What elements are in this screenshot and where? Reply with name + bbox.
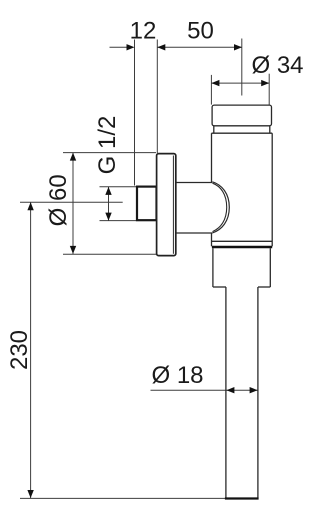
svg-text:Ø 34: Ø 34 xyxy=(251,52,303,79)
cap bottom groove ring right xyxy=(269,126,271,133)
ext line G1/2 top xyxy=(100,186,137,188)
body top line xyxy=(212,132,273,134)
centerline body x=241.8 xyxy=(241,39,243,96)
body left edge lower xyxy=(211,233,213,247)
arrow Ø34 left-pointing xyxy=(211,80,219,86)
ext line bottom xyxy=(20,497,226,499)
svg-text:G 1/2: G 1/2 xyxy=(94,116,121,175)
leader line Ø18 xyxy=(151,389,226,391)
body right edge xyxy=(271,133,273,246)
arrow 50 right-pointing xyxy=(234,44,242,50)
ext line wall left x=134.5 xyxy=(134,40,136,186)
lower box bottom right shoulder xyxy=(258,286,270,288)
arrow 50 left-pointing xyxy=(157,44,165,50)
dim line G1/2 xyxy=(108,187,110,221)
arrow 230 up-pointing xyxy=(27,202,33,210)
flange inner edge line xyxy=(172,156,174,254)
lower box left xyxy=(212,248,214,287)
svg-text:Ø 18: Ø 18 xyxy=(151,362,203,389)
arrow 230 down-pointing xyxy=(27,490,33,498)
dim line 230 xyxy=(30,202,32,498)
joint thick line xyxy=(212,246,272,248)
arrow Ø60 down-pointing xyxy=(70,246,76,254)
dim line Ø18 xyxy=(226,389,257,391)
body left edge upper xyxy=(211,133,213,182)
conical nose bulge fill xyxy=(212,182,229,233)
arrow G1/2 down-pointing xyxy=(105,213,111,221)
ext line Ø60 bottom xyxy=(63,253,176,255)
dim line Ø34 xyxy=(211,82,269,84)
G1/2 threaded nipple xyxy=(137,187,157,221)
connector top line xyxy=(176,182,213,184)
svg-text:Ø 60: Ø 60 xyxy=(45,174,72,226)
arrow Ø18 left-pointing xyxy=(226,387,234,393)
leader line inlet axis xyxy=(20,201,123,203)
lower box bottom left shoulder xyxy=(213,286,226,288)
wall flange rosette xyxy=(157,154,176,256)
valve cap xyxy=(212,105,271,126)
svg-text:50: 50 xyxy=(187,18,214,45)
svg-text:230: 230 xyxy=(6,330,33,370)
arrow Ø60 up-pointing xyxy=(70,153,76,161)
arrow Ø34 right-pointing xyxy=(261,80,269,86)
svg-text:12: 12 xyxy=(130,18,157,45)
ext line G1/2 bottom xyxy=(100,220,137,222)
ext line Ø34 left xyxy=(210,75,212,105)
arrow G1/2 up-pointing xyxy=(105,187,111,195)
pipe right edge xyxy=(257,287,259,499)
cap bottom groove ring left xyxy=(213,126,215,133)
dim line Ø60 xyxy=(72,153,74,254)
dim line 12 tail xyxy=(110,46,128,48)
conical nose bulge inner line xyxy=(213,183,227,231)
pipe bottom thick edge xyxy=(225,497,259,499)
lower box right xyxy=(269,248,271,287)
conical nose bulge outer line xyxy=(212,182,229,233)
ext line wall right x=157.3 xyxy=(156,40,158,154)
pipe left edge xyxy=(225,287,227,499)
arrow 12 right-pointing xyxy=(127,44,135,50)
ext line Ø60 top xyxy=(63,152,156,154)
body bottom thin line xyxy=(212,240,273,242)
arrow Ø18 right-pointing xyxy=(250,387,258,393)
ext line Ø34 right xyxy=(268,74,270,105)
connector bottom line xyxy=(176,232,213,234)
dim line 50 xyxy=(157,46,242,48)
